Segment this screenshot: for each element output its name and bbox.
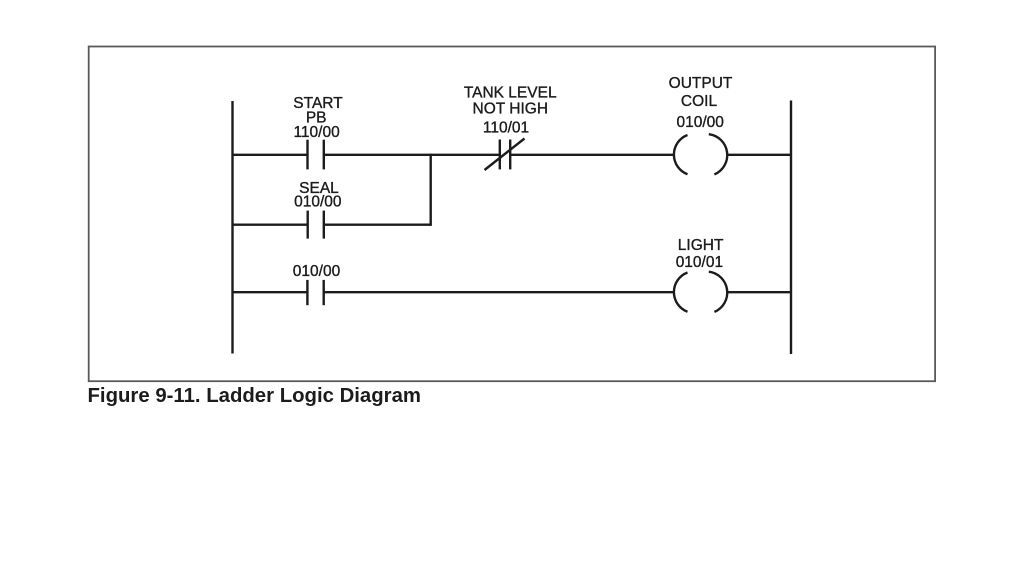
svg-text:Figure 9-11. Ladder Logic Diag: Figure 9-11. Ladder Logic Diagram xyxy=(88,385,422,407)
svg-text:110/01: 110/01 xyxy=(483,120,529,137)
svg-text:TANK LEVEL: TANK LEVEL xyxy=(464,85,557,102)
svg-text:010/00: 010/00 xyxy=(294,194,342,211)
svg-text:010/01: 010/01 xyxy=(676,254,723,271)
svg-text:010/00: 010/00 xyxy=(293,263,341,280)
svg-text:COIL: COIL xyxy=(681,93,718,110)
svg-text:NOT HIGH: NOT HIGH xyxy=(473,101,549,118)
svg-text:OUTPUT: OUTPUT xyxy=(669,75,733,92)
svg-text:LIGHT: LIGHT xyxy=(678,237,724,254)
svg-text:110/00: 110/00 xyxy=(293,124,340,141)
svg-text:010/00: 010/00 xyxy=(676,114,724,131)
